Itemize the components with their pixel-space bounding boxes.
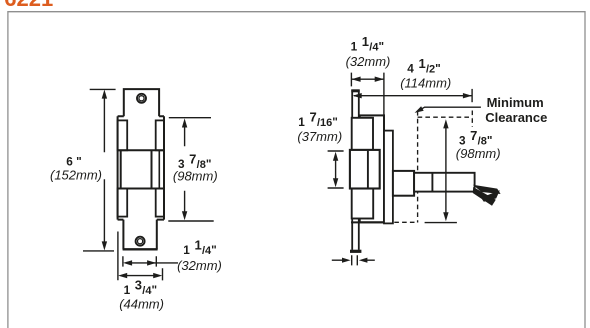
- svg-text:Clearance: Clearance: [485, 110, 547, 125]
- svg-text:(44mm): (44mm): [119, 296, 164, 311]
- svg-text:(98mm): (98mm): [456, 146, 501, 161]
- svg-text:1 1/4": 1 1/4": [351, 34, 384, 54]
- svg-text:(152mm): (152mm): [50, 167, 102, 182]
- svg-text:(114mm): (114mm): [400, 75, 451, 90]
- svg-text:(32mm): (32mm): [346, 54, 391, 69]
- svg-text:6221: 6221: [4, 0, 53, 11]
- svg-text:(37mm): (37mm): [297, 129, 342, 144]
- svg-text:(32mm): (32mm): [177, 258, 222, 273]
- svg-text:3 7/8": 3 7/8": [459, 128, 492, 148]
- svg-text:1 7/16": 1 7/16": [298, 109, 338, 129]
- svg-text:Minimum: Minimum: [487, 95, 544, 110]
- svg-text:6 ": 6 ": [66, 154, 81, 168]
- svg-text:4 1/2": 4 1/2": [407, 56, 440, 76]
- svg-text:1 1/4": 1 1/4": [183, 237, 216, 257]
- svg-text:1 3/4": 1 3/4": [124, 277, 157, 297]
- svg-text:(98mm): (98mm): [173, 168, 218, 183]
